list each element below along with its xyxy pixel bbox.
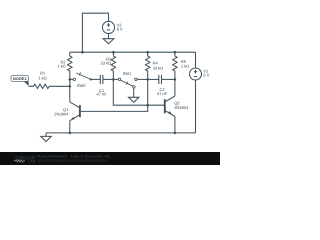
svg-text:1 kΩ: 1 kΩ [38, 76, 46, 81]
wire R4 node down to Q1 base [80, 79, 148, 111]
svg-text:SW2: SW2 [77, 83, 86, 88]
transistor Q1 [70, 102, 80, 121]
wire bottom rail [46, 132, 196, 134]
node junction Q1 emitter/rail [69, 132, 72, 135]
voltage source V2 [102, 21, 114, 33]
node junction C2/R5/Q2 collector [174, 78, 177, 81]
ground under SW1 [129, 97, 139, 102]
svg-text:33 kΩ: 33 kΩ [153, 65, 164, 70]
svg-text:47 nF: 47 nF [96, 92, 107, 97]
label V2 value [13, 23, 210, 117]
node junction V2/rail [81, 51, 84, 54]
resistor R4 [146, 52, 150, 79]
node junction R4/C2/SW1/base-link [146, 78, 149, 81]
wire Q2 emitter to bottom rail [174, 116, 176, 132]
resistor R1 [29, 84, 70, 88]
wire R4 node to C2 [148, 78, 159, 80]
wire V2 feed from rail up and over to V2 [82, 13, 108, 52]
svg-text:2N3904: 2N3904 [54, 111, 69, 116]
footer CircuitLab logo [14, 155, 37, 163]
switch SW2 [70, 72, 92, 80]
svg-text:LAB: LAB [28, 159, 36, 163]
footer bar [0, 152, 220, 165]
node junction R1/collector [69, 85, 72, 88]
wire top rail [70, 51, 196, 53]
svg-text:2N3904: 2N3904 [174, 105, 189, 110]
voltage source V1 [195, 52, 197, 68]
resistor R2 [68, 52, 72, 79]
svg-text:http://circuitlab.com/c/tp8u5b: http://circuitlab.com/c/tp8u5bqr5bw [38, 159, 109, 163]
wire SW2 to C1 [91, 78, 101, 80]
svg-text:33 kΩ: 33 kΩ [101, 60, 112, 65]
transistor Q2 [165, 96, 175, 117]
wire C1 to SW1 node [103, 78, 113, 80]
capacitor C1 [100, 75, 103, 84]
resistor R5 [173, 52, 177, 79]
node junction C1/SW1/R3/base-link [112, 78, 115, 81]
switch SW1 [113, 78, 137, 88]
wire Q2 base [148, 104, 165, 106]
capacitor C2 [159, 75, 162, 84]
node A junction R2/SW2/Q1 collector [69, 78, 72, 81]
wire C1 node down to base link line [113, 79, 147, 105]
node junction R5/rail [174, 51, 177, 54]
svg-text:47 nF: 47 nF [157, 91, 168, 96]
wire C2 to Q2 collector node [162, 78, 175, 80]
ground under V2 [103, 39, 114, 44]
wire V1 bottom to bottom rail [195, 80, 197, 133]
node NODE1 flag [11, 76, 29, 87]
node junction R4/rail [146, 51, 149, 54]
wire SW1 right throw to R4 node [137, 78, 148, 80]
wire SW1 bottom throw to ground [133, 88, 135, 97]
wire V2 to ground stub [108, 34, 110, 39]
svg-text:5 V: 5 V [203, 73, 209, 78]
ground at bottom rail [41, 136, 51, 141]
wire rail end to ground [45, 133, 47, 137]
svg-text:8 V: 8 V [117, 26, 123, 31]
wire Q1 collector vertical [69, 79, 71, 102]
wire Q2 collector vertical [174, 79, 176, 96]
svg-text:1 kΩ: 1 kΩ [57, 64, 65, 69]
svg-text:NODE1: NODE1 [13, 77, 27, 81]
node junction Q2 emitter/rail [174, 132, 177, 135]
wire Q1 emitter to bottom rail [69, 121, 71, 133]
node junction R3/rail [112, 51, 115, 54]
svg-text:1 kΩ: 1 kΩ [181, 64, 189, 69]
node junction base link [146, 104, 149, 107]
resistor R3 [111, 52, 115, 79]
svg-text:SW1: SW1 [123, 71, 132, 76]
